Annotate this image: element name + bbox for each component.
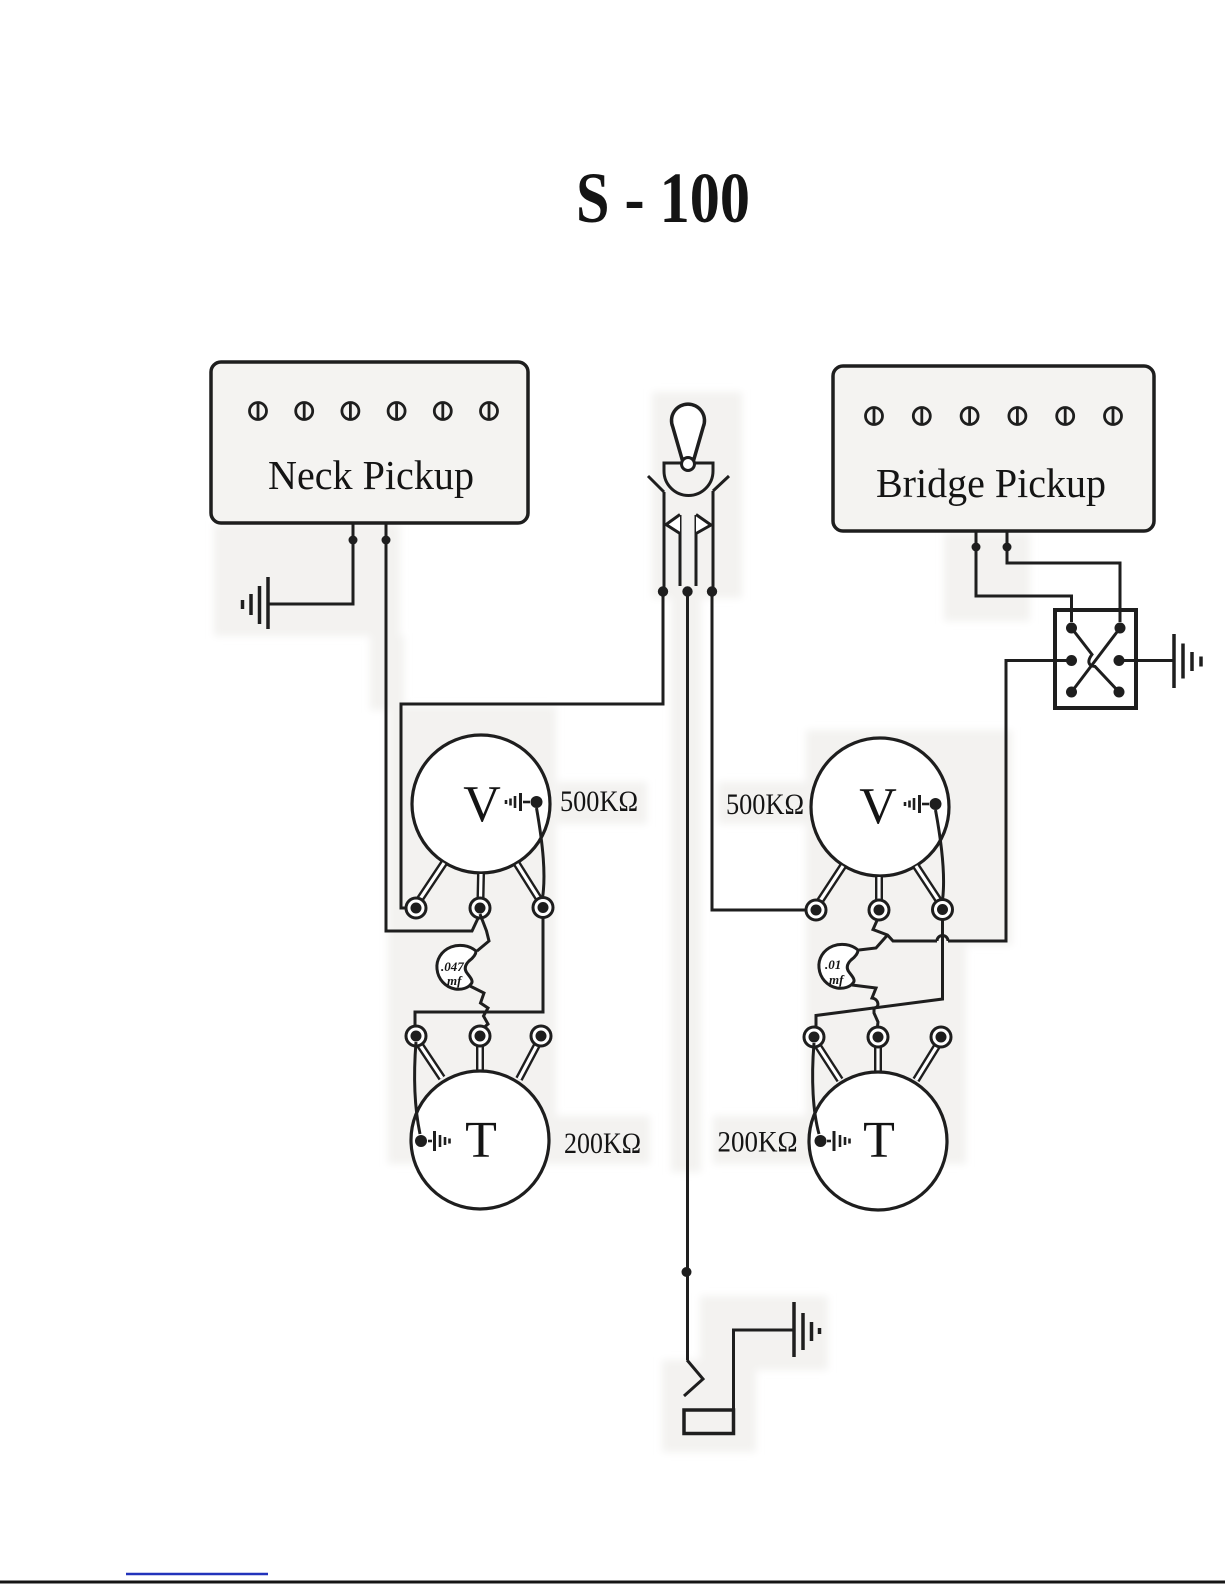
svg-text:Bridge Pickup: Bridge Pickup <box>876 460 1106 506</box>
V2 case wire to right lug <box>936 810 944 900</box>
wire phase ML to bridge volume <box>948 661 1072 942</box>
junction dot on output wire <box>682 1267 692 1277</box>
T2 case cap symbol <box>827 1131 850 1151</box>
V1 case cap symbol <box>506 793 530 811</box>
svg-text:V: V <box>463 776 501 833</box>
capacitor C2 .01mf lead from V2 wiper <box>859 935 888 950</box>
bridge tone pot T2 <box>809 1072 947 1210</box>
V1 legs <box>420 863 539 899</box>
ground symbol (phase) <box>1174 634 1201 688</box>
svg-text:500KΩ: 500KΩ <box>726 788 804 821</box>
T1 case wire <box>415 1042 420 1134</box>
T1 case cap symbol <box>428 1131 450 1151</box>
wire V2 right lug to T2 left lug <box>816 920 943 1027</box>
wire V1 right lug to T1 left lug <box>415 918 543 1027</box>
T1 lugs <box>406 1026 551 1046</box>
wire to bridge V mid lug <box>873 916 937 941</box>
wire toggle mid to output jack <box>686 594 689 1360</box>
wire phase MR to ground <box>1119 659 1174 662</box>
toggle pivot <box>682 458 695 471</box>
V1 case wire to right lug <box>537 808 544 898</box>
T2 case wire <box>813 1043 819 1134</box>
svg-text:.01: .01 <box>825 957 841 972</box>
blue underline <box>126 1573 268 1576</box>
toggle terminal dots <box>658 586 668 596</box>
capacitor C2 body <box>819 944 858 988</box>
hop over case wire <box>937 936 948 942</box>
toggle contact flag right <box>696 515 711 534</box>
svg-text:S - 100: S - 100 <box>576 158 750 238</box>
bridge pickup pole pieces <box>866 408 1122 425</box>
phase switch terminals <box>1066 623 1126 698</box>
V2 case cap symbol <box>905 795 929 813</box>
ground symbol (neck) <box>243 577 269 629</box>
svg-text:T: T <box>863 1112 895 1169</box>
capacitor C2 lead to T2 wiper <box>852 985 878 1031</box>
toggle middle channel <box>679 515 682 586</box>
output jack tip contact <box>684 1360 703 1396</box>
V2 lugs <box>806 900 953 921</box>
capacitor C1 body <box>437 945 476 989</box>
svg-text:Neck Pickup: Neck Pickup <box>268 452 474 498</box>
phase switch box <box>1055 610 1136 708</box>
bridge pickup <box>833 366 1154 531</box>
phase switch cross wire TR-BL <box>1072 628 1121 692</box>
svg-text:500KΩ: 500KΩ <box>560 785 638 818</box>
junction dot <box>382 536 391 545</box>
svg-text:200KΩ: 200KΩ <box>564 1127 641 1160</box>
toggle outer legs <box>663 492 666 587</box>
bridge volume pot V2 <box>811 738 949 876</box>
toggle contact flag left <box>666 515 680 534</box>
wire neck pickup ground lead <box>268 523 353 604</box>
wire neck pickup hot to volume mid lug <box>386 523 480 931</box>
junction dot <box>349 536 358 545</box>
svg-text:.047: .047 <box>441 959 464 974</box>
neck pickup pole pieces <box>250 403 498 420</box>
neck pickup <box>211 362 528 523</box>
capacitor C1 lead to T1 wiper <box>470 986 488 1031</box>
jack sleeve wire to ground <box>734 1330 795 1410</box>
wire bridge pickup right to phase switch TR <box>1007 531 1120 622</box>
toggle body <box>664 463 713 496</box>
V1 lugs <box>406 898 553 919</box>
svg-text:200KΩ: 200KΩ <box>718 1126 798 1159</box>
wire toggle right to bridge volume left lug <box>712 594 816 910</box>
V2 legs <box>820 866 939 901</box>
wire toggle left to neck volume left lug <box>401 594 663 908</box>
neck tone pot T1 <box>411 1071 549 1209</box>
toggle switch handle <box>672 404 705 459</box>
svg-text:V: V <box>859 778 897 835</box>
phase switch cross wire TL-BR with hop <box>1072 628 1120 692</box>
toggle wings <box>648 476 664 492</box>
svg-text:mf: mf <box>829 972 845 987</box>
bottom scan line <box>0 1581 1225 1584</box>
output jack body <box>684 1410 734 1434</box>
bridge tone pot T2 legs <box>818 1046 937 1080</box>
ground symbol (jack) <box>794 1302 820 1357</box>
svg-text:mf: mf <box>447 973 463 988</box>
scan shading patches <box>214 392 1030 1452</box>
svg-text:T: T <box>465 1112 497 1169</box>
wire bridge pickup left to phase switch TL <box>976 531 1072 622</box>
neck volume pot V1 <box>412 735 550 873</box>
neck tone pot T1 legs <box>420 1045 537 1079</box>
T2 lugs <box>804 1027 951 1047</box>
capacitor C1 .047mf lead from V1 wiper <box>477 914 489 951</box>
